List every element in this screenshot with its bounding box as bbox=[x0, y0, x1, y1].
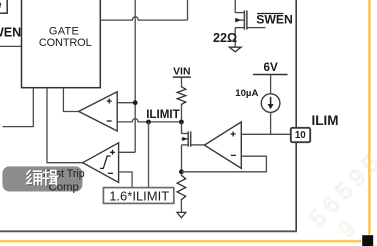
edit button glyphs (bian ji) bbox=[28, 171, 59, 186]
block GATE CONTROL bbox=[22, 0, 101, 88]
U2 hysteresis symbol bbox=[100, 156, 111, 168]
block 1.6*ILIMIT bbox=[103, 188, 173, 204]
wire VIN stem bbox=[181, 77, 183, 86]
edit button overlay bbox=[2, 166, 82, 191]
schematic border right bbox=[295, 0, 297, 231]
wire U1 output bbox=[63, 88, 78, 112]
selection border horizontal bbox=[0, 240, 361, 243]
selection border vertical bbox=[368, 0, 371, 235]
svg-text:te: te bbox=[0, 0, 2, 11]
U2 plus bbox=[110, 150, 115, 155]
U1 plus bbox=[107, 99, 112, 104]
wire I1 to ILIM wire bbox=[270, 112, 272, 134]
svg-text:VIN: VIN bbox=[173, 67, 190, 78]
svg-text:ILIM: ILIM bbox=[312, 113, 339, 128]
node junction dot bbox=[133, 100, 138, 105]
node dot Q2 source bbox=[179, 169, 184, 174]
resistor R2 (fast trip) bbox=[177, 175, 186, 201]
svg-text:1.6*ILIMIT: 1.6*ILIMIT bbox=[109, 189, 169, 204]
U3 minus bbox=[231, 154, 236, 156]
node ILIMIT dot bbox=[146, 120, 151, 125]
wire SWEN input to gate control bbox=[0, 45, 22, 47]
svg-text:GATE: GATE bbox=[49, 26, 79, 38]
current source I1 10uA bbox=[261, 94, 280, 113]
wire sense vertical bbox=[134, 0, 136, 152]
wire U2 - input bbox=[119, 172, 133, 188]
wire 6V stem bbox=[270, 75, 272, 94]
svg-text:SWEN: SWEN bbox=[0, 26, 21, 40]
ground Q1 bbox=[229, 47, 241, 52]
comparator U2 (fast trip comp) bbox=[83, 143, 119, 183]
wire gate-control output (with hop) bbox=[100, 17, 187, 20]
pin 10 ILIM bbox=[291, 128, 310, 142]
svg-text:ILIMIT: ILIMIT bbox=[146, 108, 180, 121]
op-amp U1 (current limit amp) bbox=[79, 92, 118, 131]
Q1 arrow bbox=[235, 18, 241, 23]
U2 minus bbox=[108, 172, 113, 174]
wire U1 + input bbox=[117, 102, 135, 104]
svg-text:CONTROL: CONTROL bbox=[39, 37, 92, 49]
wire R2 to ground bbox=[180, 201, 182, 213]
resistor R1 (VIN sense) bbox=[177, 86, 186, 106]
transistor Q2 (current limit FET) bbox=[182, 122, 205, 172]
wire up from corner bbox=[187, 0, 189, 20]
watermark digits bbox=[304, 146, 377, 232]
wire R1 to ILIMIT node bbox=[181, 106, 183, 122]
U1 minus bbox=[107, 120, 112, 122]
wire U3 + input to ILIM pin bbox=[241, 133, 290, 135]
label box (clipped, top-left) bbox=[0, 0, 7, 13]
svg-text:10: 10 bbox=[295, 130, 306, 141]
Q2 arrow bbox=[182, 137, 187, 141]
transistor Q1 (gate discharge FET) bbox=[235, 0, 265, 47]
selection handle bbox=[362, 235, 373, 246]
svg-text:SWEN: SWEN bbox=[256, 13, 293, 27]
wire U1 - input (with hop) bbox=[117, 119, 181, 122]
ground arrow R2 bbox=[177, 212, 186, 217]
svg-text:6V: 6V bbox=[264, 61, 279, 74]
op-amp U3 (servo amp, points left) bbox=[204, 122, 241, 168]
node dot R1 bottom bbox=[179, 120, 184, 125]
wire ILIMIT node down bbox=[148, 122, 150, 188]
VIN rail bar bbox=[173, 76, 191, 78]
wire gate-control left drop bbox=[3, 88, 34, 127]
wire gate-control to fast-trip output bbox=[47, 88, 83, 163]
wire U2 + input bbox=[119, 151, 136, 153]
wire feedback Q2 source to U3 minus bbox=[181, 156, 266, 172]
svg-text:10µA: 10µA bbox=[235, 88, 258, 99]
U3 plus bbox=[231, 132, 236, 137]
svg-text:22Ω: 22Ω bbox=[213, 31, 237, 45]
schematic border bottom bbox=[0, 230, 297, 232]
